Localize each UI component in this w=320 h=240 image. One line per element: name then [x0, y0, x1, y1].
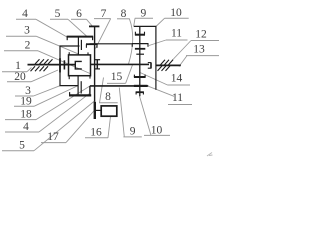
- carrier box H: [69, 52, 91, 79]
- planet shaft below box: [78, 76, 81, 96]
- label 10 top: [156, 7, 189, 27]
- left frame link (gear 2/3 shaft frame): [60, 46, 80, 86]
- svg-text:11: 11: [172, 92, 183, 104]
- gear bar 4 bottom (planet): [69, 92, 91, 95]
- label 6 top: [71, 8, 93, 26]
- svg-text:9: 9: [141, 8, 147, 20]
- input shaft 1 axis: [28, 64, 76, 66]
- label 5 top: [50, 8, 87, 37]
- svg-text:4: 4: [23, 121, 29, 133]
- svg-text:11: 11: [171, 28, 182, 40]
- gear bar b5: [134, 75, 146, 77]
- right vertical gear shaft: [139, 26, 141, 96]
- label 20 left: [7, 70, 58, 83]
- gear on shaft 7 left end: [86, 44, 98, 48]
- planet shaft above box: [78, 37, 81, 55]
- svg-text:14: 14: [171, 73, 183, 85]
- label 12 right: [172, 29, 219, 61]
- right support hatching above: [161, 60, 174, 65]
- left support hatching above: [35, 59, 53, 64]
- crank inside box: [75, 61, 82, 69]
- svg-text:10: 10: [151, 125, 163, 137]
- svg-text:19: 19: [20, 96, 32, 108]
- label 2 left: [4, 40, 90, 74]
- gear 20 on input shaft: [63, 60, 65, 69]
- svg-text:13: 13: [193, 44, 205, 56]
- label 10 bottom: [140, 97, 170, 137]
- svg-text:6: 6: [76, 8, 82, 20]
- label 8 top: [117, 8, 133, 64]
- svg-text:8: 8: [105, 91, 111, 103]
- label 19 left: [14, 86, 78, 108]
- stub to box 16: [96, 109, 101, 111]
- gear bar b6 on lower shaft: [134, 85, 148, 87]
- svg-text:5: 5: [19, 140, 25, 152]
- svg-text:10: 10: [170, 7, 182, 19]
- label 9 bottom: [119, 88, 142, 138]
- svg-text:18: 18: [20, 109, 32, 121]
- left support hatching below: [31, 66, 49, 71]
- right support hatching below: [158, 66, 171, 71]
- label 17 bottom: [41, 111, 94, 144]
- svg-text:9: 9: [130, 126, 136, 138]
- gear 5/6 tee symbol: [89, 25, 99, 27]
- label 7 top: [94, 8, 111, 49]
- label 11 top right: [149, 28, 188, 46]
- top frame of gear 9/10: [134, 26, 156, 89]
- svg-text:15: 15: [111, 71, 123, 83]
- faint artifact mark: [207, 153, 213, 157]
- svg-text:16: 16: [90, 127, 102, 139]
- long vertical shaft right of box: [94, 26, 96, 101]
- gear bar b2 wide: [132, 44, 149, 47]
- label 8 middle: [99, 78, 118, 104]
- svg-text:2: 2: [25, 40, 31, 52]
- output shaft 14: [156, 64, 181, 66]
- svg-text:20: 20: [14, 71, 26, 83]
- svg-text:17: 17: [47, 131, 59, 143]
- horizontal shaft 7 at y44: [90, 43, 132, 45]
- lower horizontal shaft 15: [90, 86, 148, 95]
- svg-text:8: 8: [121, 8, 127, 20]
- label 18 left: [5, 86, 90, 120]
- gear bar b4: [136, 53, 144, 55]
- box 16: [101, 106, 117, 116]
- label 5 bottom left: [2, 101, 95, 152]
- label 13 right: [179, 44, 219, 67]
- svg-text:4: 4: [22, 8, 28, 20]
- label 11 bottom right: [149, 86, 193, 104]
- svg-text:5: 5: [55, 8, 61, 20]
- label 15 middle: [107, 65, 133, 84]
- gear bar b3: [135, 48, 145, 50]
- label 16 bottom: [85, 117, 111, 139]
- svg-text:3: 3: [24, 25, 30, 37]
- label 3 top left: [6, 25, 78, 54]
- label 4 top: [16, 8, 67, 37]
- gear on upper shaft: [95, 60, 101, 70]
- label 3 lower left: [15, 85, 60, 97]
- label 14 right: [140, 73, 190, 86]
- label 1 left: [2, 60, 32, 72]
- gear bar b7: [136, 92, 144, 94]
- gear 16 thick bar on vertical shaft: [94, 102, 96, 119]
- label 9 top: [134, 8, 153, 27]
- label 4 bottom left: [5, 94, 89, 133]
- svg-text:12: 12: [195, 29, 207, 41]
- gear bar b1: [135, 32, 145, 35]
- gear bar 4 top (planet): [67, 37, 94, 41]
- upper horizontal shaft 8: [91, 63, 149, 65]
- clutch half on upper shaft: [148, 62, 151, 68]
